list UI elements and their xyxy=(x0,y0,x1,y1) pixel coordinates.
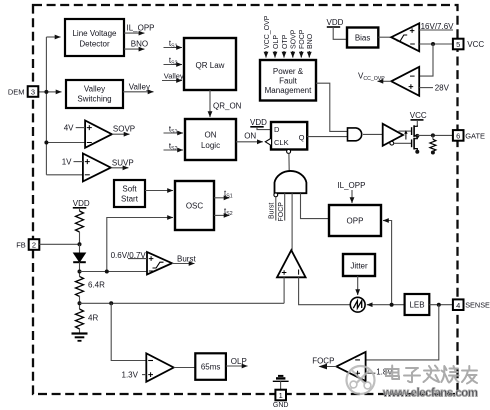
fault input OTP xyxy=(282,34,289,57)
block ON Logic xyxy=(185,119,236,160)
svg-text:DEM: DEM xyxy=(8,87,25,96)
transistor upper NMOS xyxy=(412,125,418,137)
signal ON to DFF clock xyxy=(236,132,263,142)
wire tap down to OLP comparator xyxy=(111,303,146,360)
svg-text:tS2: tS2 xyxy=(169,56,178,66)
svg-text:Burst: Burst xyxy=(177,255,196,264)
svg-text:OLP: OLP xyxy=(231,357,247,366)
wire Jitter to ramp generator xyxy=(357,276,359,295)
wire DEM to LVD xyxy=(46,36,60,38)
svg-text:1.3V: 1.3V xyxy=(122,371,139,380)
svg-text:4R: 4R xyxy=(88,314,98,323)
block OSC xyxy=(175,181,214,230)
pin 4 SENSE xyxy=(453,299,490,310)
svg-text:Valley: Valley xyxy=(84,85,105,94)
svg-text:ON: ON xyxy=(205,131,217,140)
resistor 4R xyxy=(76,309,99,334)
node gate resistor junction xyxy=(431,133,435,137)
transistor lower NMOS xyxy=(412,136,418,151)
svg-text:VDD: VDD xyxy=(250,118,267,127)
wire DFF reset from dome gate xyxy=(288,153,290,171)
block Soft Start xyxy=(114,180,145,207)
svg-text:SOVP: SOVP xyxy=(113,125,135,134)
svg-text:Detector: Detector xyxy=(79,40,110,49)
comparator FOCP (1.8V) xyxy=(336,352,365,381)
svg-text:ON: ON xyxy=(244,132,256,141)
signal OLP out xyxy=(226,357,248,366)
ramp generator circle xyxy=(350,297,365,312)
input ts2 to ON Logic xyxy=(164,142,184,152)
pin 2 FB xyxy=(16,239,39,250)
diode D1 xyxy=(73,244,86,276)
wire sense feedback into OPP xyxy=(383,221,392,305)
svg-text:16V/7.6V: 16V/7.6V xyxy=(421,22,455,31)
wire output to pin 6 xyxy=(417,134,453,136)
signal VCC_OVP out xyxy=(358,72,391,82)
input ts2 to QR Law xyxy=(164,56,183,66)
signal QR_ON xyxy=(210,90,242,117)
comparator OLP (1.3V) xyxy=(122,353,174,382)
svg-text:tS1: tS1 xyxy=(224,189,233,199)
wire Soft Start to OSC xyxy=(145,190,173,192)
wire Bias to UVLO tip xyxy=(378,36,391,38)
svg-text:VCC: VCC xyxy=(410,111,427,120)
svg-text:Line Voltage: Line Voltage xyxy=(72,29,117,38)
block Line Voltage Detector xyxy=(65,19,124,56)
comparator UVLO (16V/7.6V) xyxy=(391,23,419,51)
block Valley Switching xyxy=(66,80,123,108)
node driver output xyxy=(415,134,419,138)
wire FOCP input xyxy=(278,193,285,221)
signal Valley out xyxy=(123,83,154,92)
svg-text:D: D xyxy=(274,125,280,134)
wire VCC junction down to OVP comparator xyxy=(419,44,433,76)
wire DEM vertical bus xyxy=(45,37,47,175)
svg-text:tS1: tS1 xyxy=(169,125,178,135)
wire AND to driver xyxy=(363,133,383,135)
signal FOCP out xyxy=(312,356,336,369)
block Bias xyxy=(347,28,378,48)
block Power & Fault Management xyxy=(260,60,316,101)
input bubble Burst xyxy=(274,193,278,197)
svg-text:Start: Start xyxy=(121,195,139,204)
wire DEM to SUVP comp lower input xyxy=(46,174,83,176)
svg-text:Bias: Bias xyxy=(355,34,371,43)
svg-text:OSC: OSC xyxy=(186,202,204,211)
svg-text:Switching: Switching xyxy=(77,95,111,104)
svg-text:BNO: BNO xyxy=(131,39,148,48)
svg-text:5: 5 xyxy=(456,40,460,49)
wire OPP to dome xyxy=(301,193,330,218)
svg-text:tS2: tS2 xyxy=(224,207,233,217)
svg-text:IL_OPP: IL_OPP xyxy=(127,24,155,33)
svg-text:QR_ON: QR_ON xyxy=(213,102,242,111)
wire PFM to AND gate xyxy=(316,83,348,131)
svg-text:Valley: Valley xyxy=(164,71,184,80)
comparator SUVP xyxy=(62,154,111,182)
svg-text:FB: FB xyxy=(16,240,26,249)
ground symbol above GND pin xyxy=(273,376,289,390)
svg-text:CLK: CLK xyxy=(274,138,289,147)
fault input VCC_OVP xyxy=(264,15,271,57)
VDD supply for DFF xyxy=(250,118,271,130)
node diode-6.4R junction xyxy=(78,270,82,274)
VDD supply for FB divider xyxy=(73,199,90,211)
ground below 4R xyxy=(72,334,88,341)
node OSC feed junction xyxy=(105,270,109,274)
svg-text:FOCP: FOCP xyxy=(278,202,285,222)
wire tap to PWM comparator xyxy=(80,302,285,304)
resistor gate pulldown xyxy=(430,135,436,154)
fault input SOVP xyxy=(291,29,298,57)
VDD supply for Bias xyxy=(327,18,348,39)
wire FB pin to divider xyxy=(39,243,79,245)
svg-text:SUVP: SUVP xyxy=(112,158,134,167)
fault input BNO xyxy=(307,33,314,57)
pin 5 VCC xyxy=(453,39,485,50)
node DEM junction xyxy=(44,90,48,94)
threshold 1.8V stub xyxy=(366,368,394,377)
wire comparator to 65ms xyxy=(174,367,196,369)
watermark logo xyxy=(347,366,375,394)
fault input OLP xyxy=(273,35,280,58)
input ts1 to ON Logic xyxy=(164,125,184,135)
threshold 28V stub xyxy=(419,84,449,93)
wire divider tap to burst comparator xyxy=(80,271,148,273)
pin 1 GND xyxy=(273,390,289,409)
svg-text:Burst: Burst xyxy=(268,203,275,219)
pin 3 DEM xyxy=(8,86,38,97)
fault input FOCP xyxy=(299,29,306,57)
svg-text:VDD: VDD xyxy=(327,18,344,27)
svg-text:FOCP: FOCP xyxy=(312,356,334,365)
svg-text:0.6V/0.7V: 0.6V/0.7V xyxy=(111,251,147,260)
signal IL_OPP out of LVD xyxy=(124,24,155,34)
wire VCC sense to UVLO and pin 5 xyxy=(419,43,453,45)
svg-text:BNO: BNO xyxy=(307,33,314,49)
svg-text:OPP: OPP xyxy=(347,217,364,226)
comparator Burst (0.6V/0.7V) xyxy=(111,251,172,275)
wire DEM to SOVP comp lower input xyxy=(46,142,85,144)
comparator SOVP xyxy=(64,121,112,148)
wire driver to upper mosfet gate xyxy=(399,130,412,132)
svg-text:VCC_OVP: VCC_OVP xyxy=(264,15,271,49)
wire node to Valley Switching xyxy=(46,91,61,93)
signal BNO out of LVD xyxy=(124,39,148,49)
wire PWM comparator to dome xyxy=(291,193,293,250)
node VCC junction xyxy=(431,42,435,46)
wire Burst input xyxy=(268,197,276,221)
wire PWM right input from ramp xyxy=(299,277,351,304)
wire DEM pin to valley node xyxy=(38,91,46,93)
svg-text:1: 1 xyxy=(279,391,283,400)
pin 6 GATE xyxy=(453,130,485,141)
threshold 16V/7.6V stub xyxy=(419,22,454,31)
input Valley to QR Law xyxy=(162,71,184,80)
svg-text:SOVP: SOVP xyxy=(291,29,298,49)
block QR Law xyxy=(184,38,236,90)
node OLP feed junction xyxy=(109,301,113,305)
block 65ms xyxy=(195,353,226,380)
svg-text:www.elecfans.com: www.elecfans.com xyxy=(382,388,478,400)
svg-text:VDD: VDD xyxy=(73,199,90,208)
svg-text:VCC: VCC xyxy=(467,40,484,49)
wire PWM left input from divider xyxy=(283,277,285,303)
svg-text:1V: 1V xyxy=(62,158,72,167)
gate AND2 (gate drive) xyxy=(348,128,362,141)
svg-text:6: 6 xyxy=(456,132,460,141)
output ts2 of OSC xyxy=(214,207,233,217)
svg-text:Soft: Soft xyxy=(122,185,137,194)
svg-text:Fault: Fault xyxy=(279,77,298,86)
svg-text:Jitter: Jitter xyxy=(350,262,368,271)
block Jitter xyxy=(343,254,375,276)
resistor R-VDD (FB pullup) xyxy=(76,211,84,244)
svg-text:tS1: tS1 xyxy=(169,39,178,49)
watermark text dianzifashaoyou (vector strokes) xyxy=(386,366,477,384)
svg-text:tS2: tS2 xyxy=(169,142,178,152)
node sense junction xyxy=(437,303,441,307)
node 6.4R-4R junction xyxy=(78,301,82,305)
svg-text:65ms: 65ms xyxy=(201,363,221,372)
signal SOVP out xyxy=(112,125,135,135)
svg-text:4: 4 xyxy=(456,301,460,310)
wire FB divider to OSC input xyxy=(107,218,172,272)
svg-text:GND: GND xyxy=(273,402,289,409)
svg-text:6.4R: 6.4R xyxy=(88,280,105,289)
svg-text:Management: Management xyxy=(265,86,312,95)
svg-text:QR Law: QR Law xyxy=(196,61,225,70)
input ts1 to QR Law xyxy=(164,39,183,49)
DFF inverted output bubble xyxy=(287,149,291,153)
svg-text:SENSE: SENSE xyxy=(465,301,490,310)
svg-text:2: 2 xyxy=(32,241,36,250)
signal IL_OPP into OPP xyxy=(337,181,365,203)
block LEB xyxy=(405,294,430,315)
block OPP xyxy=(329,205,381,236)
svg-text:3: 3 xyxy=(31,88,35,97)
svg-text:Power &: Power & xyxy=(273,67,304,76)
node FB junction xyxy=(78,242,82,246)
wire LEB to pin 4 xyxy=(429,304,453,306)
node OPP feedback junction xyxy=(390,303,394,307)
svg-text:OLP: OLP xyxy=(273,35,280,49)
resistor 6.4R xyxy=(76,276,106,309)
svg-text:Valley: Valley xyxy=(129,83,150,92)
svg-text:Logic: Logic xyxy=(201,141,220,150)
svg-text:28V: 28V xyxy=(435,84,450,93)
terminal lower source dot xyxy=(415,150,419,154)
flip-flop U1 D/CLK/Q xyxy=(265,122,307,150)
svg-text:LEB: LEB xyxy=(409,301,424,310)
signal Burst out xyxy=(172,255,196,264)
node DEM-SOVP junction xyxy=(44,141,48,145)
svg-text:Q: Q xyxy=(299,133,305,142)
svg-text:4V: 4V xyxy=(64,124,74,133)
svg-text:FOCP: FOCP xyxy=(299,29,306,49)
wire Q to AND gate xyxy=(307,136,347,138)
wire driver bubble to lower mosfet gate xyxy=(394,142,412,144)
svg-text:GATE: GATE xyxy=(465,131,485,140)
svg-text:OTP: OTP xyxy=(282,34,289,49)
output ts1 of OSC xyxy=(214,189,233,199)
gate AND4 reset dome xyxy=(275,171,307,193)
svg-text:IL_OPP: IL_OPP xyxy=(337,181,365,190)
signal SUVP out xyxy=(111,158,134,167)
wire sense down to FOCP comparator xyxy=(366,305,439,360)
svg-text:VCC_OVP: VCC_OVP xyxy=(358,72,385,82)
comparator PWM (current sense) xyxy=(277,250,306,277)
VCC supply for driver stage xyxy=(410,111,427,125)
buffer driver triangle xyxy=(383,124,403,146)
diode between gate lines xyxy=(404,130,407,139)
wire LEB to ramp generator xyxy=(367,304,405,306)
comparator VCC_OVP (28V) xyxy=(391,67,419,96)
